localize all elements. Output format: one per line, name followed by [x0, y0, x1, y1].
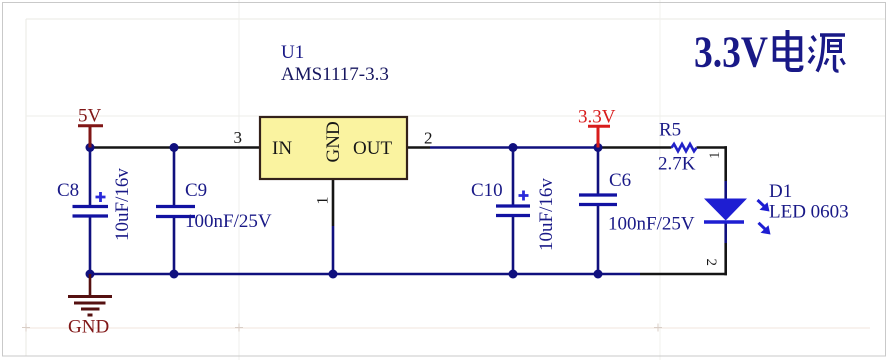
svg-text:2: 2: [424, 129, 433, 148]
grid line horizontal top: [26, 18, 886, 20]
title hanzi yuan: [809, 35, 845, 72]
svg-text:C10: C10: [471, 180, 503, 201]
pin number 1 (rotated): [315, 197, 332, 205]
node 3.3V junction: [594, 143, 603, 152]
resistor R5 zigzag: [672, 144, 697, 151]
C10 value 10uF/16v (rotated): [536, 178, 557, 251]
U1 pin name IN: [272, 138, 292, 159]
U1 value AMS1117-3.3: [281, 64, 389, 85]
grid line horizontal bottom: [26, 327, 870, 329]
D1 pin 2 (rotated): [703, 259, 719, 267]
power port 5V: [78, 106, 103, 148]
svg-text:C9: C9: [185, 180, 207, 201]
svg-text:1: 1: [707, 152, 723, 160]
svg-text:LED 0603: LED 0603: [769, 202, 849, 223]
C10 polarity plus: [519, 191, 529, 201]
svg-text:3.3V: 3.3V: [578, 107, 616, 128]
node C6 bottom junction: [594, 270, 603, 279]
title 3.3V: [694, 28, 768, 77]
U1 designator: [281, 42, 304, 63]
D1 designator: [769, 181, 792, 202]
D1 pin 1 (rotated dash): [707, 152, 723, 160]
wire C6 branch: [597, 148, 600, 275]
wire 3.3V node to R5: [598, 146, 672, 149]
node C9 top junction: [170, 143, 179, 152]
capacitor C6 plates: [579, 195, 617, 205]
C8 polarity plus: [96, 192, 106, 202]
C10 designator: [471, 180, 503, 201]
wire OUT rail to 3.3V node: [430, 146, 598, 149]
pin number 2: [424, 129, 433, 148]
C6 designator: [609, 170, 631, 191]
svg-text:100nF/25V: 100nF/25V: [185, 211, 272, 232]
svg-text:2.7K: 2.7K: [658, 154, 696, 175]
C9 value 100nF/25V: [185, 211, 272, 232]
C8 value 10uF/16v (rotated): [112, 168, 133, 241]
wire top-left rail 5V node to IN pin: [90, 146, 260, 149]
C6 value 100nF/25V: [608, 214, 695, 235]
svg-text:R5: R5: [659, 120, 681, 141]
R5 value 2.7K: [658, 154, 696, 175]
D1 value LED 0603: [769, 202, 849, 223]
svg-text:2: 2: [703, 259, 719, 267]
capacitor C9 plates: [156, 207, 195, 217]
svg-text:3.3V: 3.3V: [694, 28, 768, 77]
svg-text:3: 3: [234, 128, 243, 147]
grid line vertical right: [659, 0, 661, 360]
node C9 bottom junction: [170, 270, 179, 279]
node C10 bottom junction: [509, 270, 518, 279]
svg-text:C6: C6: [609, 170, 631, 191]
wire LED anode: [724, 181, 727, 199]
U1 pin name GND (rotated): [323, 121, 344, 162]
wire bottom rail: [90, 273, 727, 276]
R5 designator: [659, 120, 681, 141]
wire R5 to corner and down: [697, 146, 728, 181]
svg-text:IN: IN: [272, 138, 292, 159]
wire C10 branch: [512, 148, 515, 275]
C8 designator: [57, 180, 79, 201]
wire 5V vertical / C8 branch: [89, 148, 92, 275]
title hanzi dian: [775, 30, 802, 70]
C9 designator: [185, 180, 207, 201]
D1 emission arrows: [758, 200, 771, 235]
grid line vertical mid: [238, 0, 240, 360]
svg-text:10uF/16v: 10uF/16v: [536, 178, 557, 251]
svg-text:AMS1117-3.3: AMS1117-3.3: [281, 64, 389, 85]
svg-text:1: 1: [315, 197, 332, 205]
svg-text:GND: GND: [323, 121, 344, 162]
wire OUT pin stub: [407, 146, 430, 149]
node C10 top junction: [509, 143, 518, 152]
svg-text:C8: C8: [57, 180, 79, 201]
node U1 GND bottom junction: [329, 270, 338, 279]
op U1 regulator body: [260, 117, 407, 179]
node 5V top junction: [86, 143, 95, 152]
svg-text:U1: U1: [281, 42, 304, 63]
svg-text:10uF/16v: 10uF/16v: [112, 168, 133, 241]
svg-text:5V: 5V: [78, 106, 102, 127]
svg-text:100nF/25V: 100nF/25V: [608, 214, 695, 235]
wire C9 branch: [173, 148, 176, 275]
power port 3.3V: [578, 107, 616, 148]
node C8 bottom junction: [86, 270, 95, 279]
ground symbol GND: [68, 274, 112, 338]
svg-text:GND: GND: [68, 317, 109, 338]
grid cross marks: [22, 324, 662, 332]
svg-text:OUT: OUT: [353, 138, 392, 159]
pin number 3: [234, 128, 243, 147]
LED D1 triangle and cathode bar: [704, 199, 747, 223]
pin 1 GND pin of U1: [332, 179, 335, 274]
wire LED cathode down: [724, 222, 727, 275]
capacitor C8 plates: [73, 207, 109, 217]
svg-text:D1: D1: [769, 181, 792, 202]
grid line vertical left: [25, 19, 27, 356]
grid line horizontal mid: [26, 115, 886, 117]
capacitor C10 plates: [496, 206, 530, 216]
U1 pin name OUT: [353, 138, 392, 159]
